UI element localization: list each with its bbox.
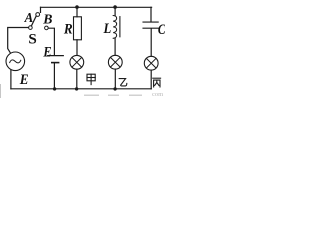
lamp jia cross [72,58,82,68]
svg-text:com: com [152,91,163,98]
lamp bing cross [146,58,156,68]
inductor L coil [113,16,116,39]
svg-text:B: B [42,12,52,27]
svg-text:A: A [24,11,34,26]
lamp yi cross [111,57,121,67]
capacitor C bottom plate [143,27,158,29]
wire: contact A to left side and down [8,28,29,53]
label jia (lamp 1, drawn glyph) [87,74,95,84]
wire: resistor to lamp jia [76,40,78,56]
battery E long plate [48,55,64,57]
capacitor C top plate [143,21,158,23]
resistor R [74,17,82,40]
wire: contact B to battery branch [48,28,54,55]
decorative scan artifact: left edge [0,84,1,98]
switch S lever (thrown toward A) [31,16,36,26]
inductor L core bar [119,17,121,37]
svg-text:E: E [19,72,29,88]
wire: bottom bus [11,88,151,90]
lamp bing circle [144,56,158,70]
switch S pivot circle [36,13,40,17]
wire: lamp jia to bottom bus [76,69,78,89]
battery E short plate [52,62,59,64]
wire: AC source bottom to bottom bus [10,70,12,89]
svg-text:L: L [103,21,112,37]
decorative watermark dashes [84,95,99,96]
node: battery bottom junction [53,87,56,90]
wire: battery to bottom bus [53,63,55,88]
wire: lamp yi to bottom bus [114,69,116,89]
wire: top bus from switch to right corner [41,6,152,8]
wire: lamp bing to bottom bus [150,70,152,89]
node: lamp yi bottom junction [113,87,116,90]
node: L branch top junction [113,5,117,9]
label yi (lamp 2, drawn glyph) [119,79,127,86]
wire: inductor to lamp yi [114,38,116,55]
node: R branch top junction [75,5,79,9]
svg-text:C: C [158,22,165,38]
label bing (lamp 3, drawn glyph) [153,78,161,87]
wire: L branch from top bus [114,7,116,15]
wire: R branch from top bus [76,7,78,16]
wire: switch pivot stub [40,7,42,12]
wire: C branch from top bus down [150,7,152,21]
lamp jia circle [70,55,84,69]
AC source sine wave [10,60,21,63]
svg-text:S: S [28,31,36,47]
AC source E circle [6,52,25,71]
switch S contact B circle [45,26,49,30]
node: lamp jia bottom junction [75,87,78,90]
svg-text:R: R [63,22,73,38]
wire: capacitor to lamp bing [150,29,152,57]
svg-text:E: E [43,45,52,61]
lamp yi circle [108,55,122,69]
switch S contact A circle [29,26,33,30]
